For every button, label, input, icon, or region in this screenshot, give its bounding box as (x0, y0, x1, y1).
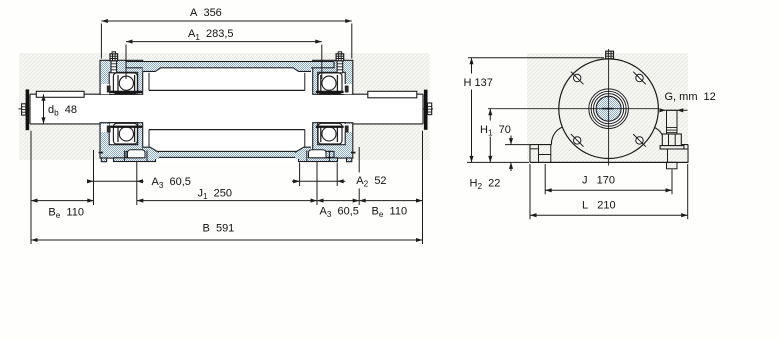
svg-text:12: 12 (704, 91, 716, 103)
svg-text:Be 110: Be 110 (48, 206, 84, 220)
svg-text:H1 70: H1 70 (480, 124, 511, 138)
svg-text:J1 250: J1 250 (198, 188, 233, 202)
svg-text:A2 52: A2 52 (356, 175, 386, 189)
svg-text:A3 60,5: A3 60,5 (320, 206, 359, 220)
svg-text:A 356: A 356 (190, 7, 222, 19)
svg-text:G, mm: G, mm (665, 91, 698, 103)
svg-text:H 137: H 137 (464, 77, 493, 89)
svg-text:L 210: L 210 (582, 199, 616, 211)
svg-text:H2 22: H2 22 (470, 178, 501, 192)
svg-text:A1 283,5: A1 283,5 (188, 28, 234, 42)
svg-text:J 170: J 170 (582, 174, 615, 186)
svg-text:B 591: B 591 (203, 223, 235, 235)
svg-text:A3 60,5: A3 60,5 (152, 176, 191, 190)
svg-text:db 48: db 48 (48, 104, 77, 118)
svg-text:Be 110: Be 110 (372, 206, 408, 220)
